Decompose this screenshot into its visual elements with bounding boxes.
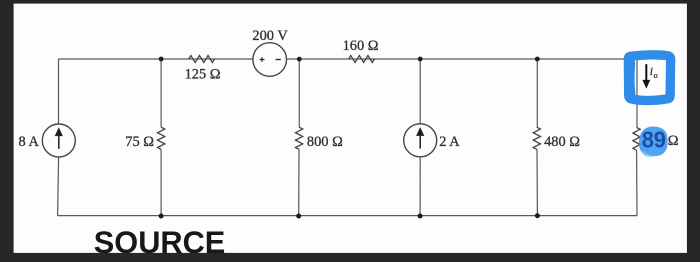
wire 75-ohm branch upper — [160, 59, 162, 127]
frame left black bar — [0, 0, 14, 262]
node junction dot bottom of 2A — [418, 214, 423, 219]
node junction dot top of 75-ohm — [159, 57, 164, 62]
annotation blue marker extra stroke left side — [627, 63, 635, 94]
wire 75-ohm branch lower — [160, 149, 162, 215]
svg-text:i: i — [650, 66, 653, 78]
resistor R2 125-ohm — [189, 56, 215, 63]
annotation blue marker box around io — [628, 55, 670, 101]
node junction dot bottom of 480-ohm — [535, 213, 540, 218]
current source I1 8A circle — [42, 124, 75, 157]
svg-text:89: 89 — [642, 126, 666, 152]
node junction dot top of 480-ohm — [535, 57, 540, 62]
node junction dot top of 2A — [418, 57, 423, 62]
node junction dot top of 800-ohm — [297, 57, 302, 62]
frame right black bar — [687, 0, 700, 262]
resistor R3 160-ohm — [349, 56, 375, 63]
svg-text:Ω: Ω — [668, 133, 679, 149]
wire 480-ohm branch lower — [536, 149, 538, 215]
frame bottom black bar — [0, 253, 700, 262]
wire 2A branch upper — [419, 59, 421, 124]
resistor R5 480-ohm — [533, 127, 540, 149]
svg-text:480 Ω: 480 Ω — [544, 134, 580, 150]
svg-text:160 Ω: 160 Ω — [343, 38, 379, 54]
svg-text:800 Ω: 800 Ω — [307, 134, 343, 150]
svg-text:125 Ω: 125 Ω — [185, 66, 221, 82]
resistor R6 89-ohm — [633, 127, 640, 150]
wire 480-ohm branch upper — [536, 59, 538, 127]
annotation blue smudge below blob — [643, 150, 657, 157]
resistor R1 75-ohm — [158, 127, 165, 149]
wire right branch lower — [636, 150, 638, 215]
wire left branch upper — [58, 59, 60, 124]
wire 2A branch lower — [419, 157, 421, 216]
svg-text:200 V: 200 V — [252, 28, 288, 44]
wire top horizontal — [59, 58, 638, 60]
svg-text:o: o — [654, 71, 658, 80]
svg-text:8 A: 8 A — [19, 134, 40, 150]
annotation current arrow io — [642, 64, 650, 88]
wire right branch upper (through blue box) — [636, 59, 638, 127]
wire left branch lower — [58, 157, 59, 216]
wire 800-ohm branch upper — [298, 59, 300, 127]
frame top black bar — [0, 0, 700, 4]
svg-text:2 A: 2 A — [439, 134, 460, 150]
wire 800-ohm branch lower — [298, 149, 300, 216]
svg-text:75 Ω: 75 Ω — [125, 134, 154, 150]
node junction dot bottom of 800-ohm — [296, 214, 301, 219]
resistor R4 800-ohm — [296, 127, 303, 149]
voltage source V1 200V circle — [253, 43, 287, 77]
current source I2 2A circle — [404, 124, 437, 157]
annotation blue highlight blob behind 89 — [639, 126, 668, 156]
node junction dot bottom of 75-ohm — [159, 214, 164, 219]
wire bottom horizontal — [58, 215, 637, 217]
